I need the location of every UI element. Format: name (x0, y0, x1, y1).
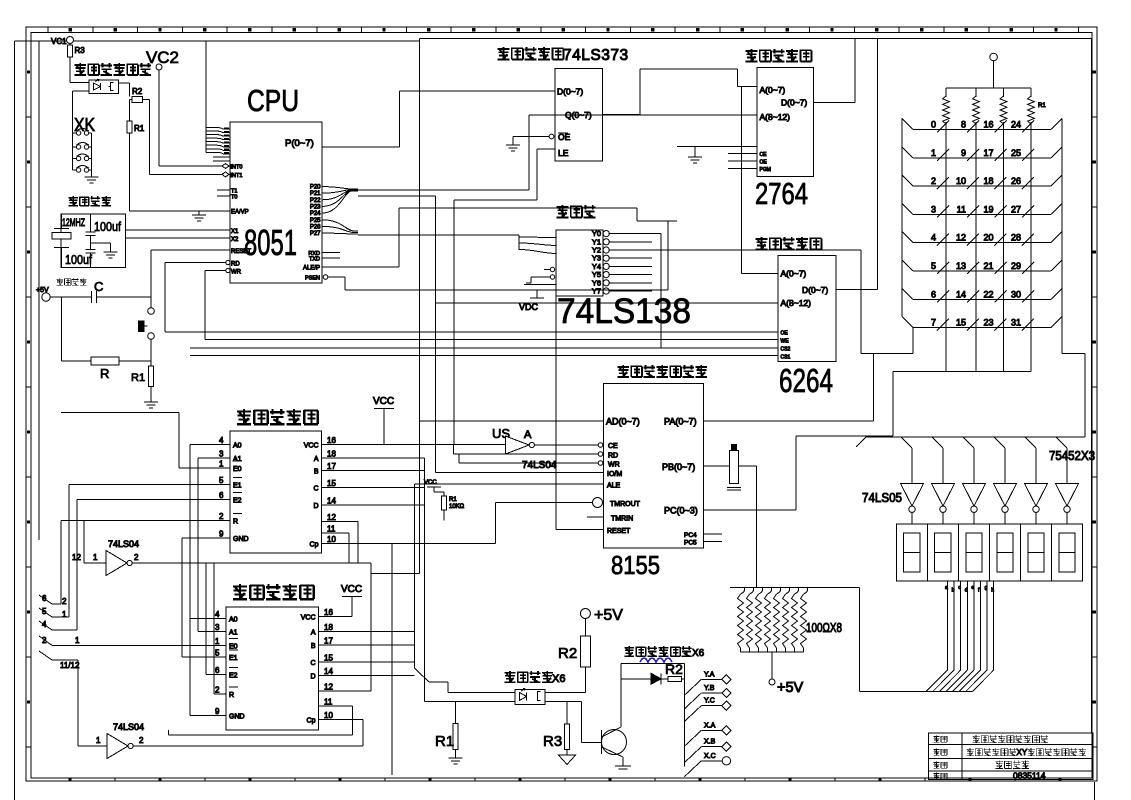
svg-text:28: 28 (1011, 233, 1021, 243)
resistor R1 (alarm) (127, 99, 145, 211)
label: program memory (746, 49, 812, 62)
8155 left pin labels (606, 417, 641, 536)
wire X2 (126, 237, 230, 239)
resistor R2 (out) (665, 661, 684, 681)
svg-text:P21: P21 (310, 191, 321, 197)
label: isolation circuit X6 (505, 671, 566, 685)
CPU X1 X2 labels (231, 229, 239, 243)
title row2: name of drawing (933, 748, 1086, 757)
wire RD to 6264 OE (165, 263, 778, 333)
svg-text:d: d (965, 588, 968, 594)
resistor R3 (543, 701, 576, 764)
CPU P2 pin stub curves (322, 187, 358, 235)
svg-text:0: 0 (931, 120, 936, 130)
PD1 right pin labels (304, 436, 337, 549)
svg-text:6: 6 (215, 666, 220, 675)
svg-text:2: 2 (139, 736, 144, 745)
svg-text:A(0~7): A(0~7) (781, 269, 807, 279)
svg-text:6: 6 (42, 594, 47, 603)
terminal +5V (amp) (580, 607, 623, 624)
blue marker squiggle (640, 658, 672, 662)
wire PSEN net (345, 221, 668, 290)
CPU ALE pin (303, 266, 399, 272)
wire Q out to 2764 (603, 69, 758, 115)
svg-text:R2: R2 (558, 645, 577, 662)
svg-text:A1: A1 (229, 629, 238, 636)
svg-text:CPU: CPU (247, 83, 299, 118)
svg-text:A: A (314, 456, 319, 463)
pulse distributor PD2 box (226, 607, 319, 730)
svg-text:74LS373: 74LS373 (563, 47, 629, 64)
svg-text:XY: XY (1017, 748, 1028, 757)
svg-text:VDC: VDC (519, 302, 539, 312)
svg-text:2: 2 (215, 686, 220, 695)
svg-text:b: b (952, 588, 955, 594)
svg-text:PC4: PC4 (684, 532, 697, 539)
PD2 right pin labels (301, 608, 334, 725)
svg-text:31: 31 (1011, 318, 1021, 328)
inverter input rail (856, 437, 1085, 447)
svg-text:AD(0~7): AD(0~7) (606, 417, 640, 427)
ground (reset R1) (144, 402, 158, 408)
wire 8155 PC (703, 509, 796, 511)
svg-text:11: 11 (324, 698, 333, 707)
svg-text:X.C: X.C (704, 753, 716, 760)
svg-text:Y.B: Y.B (704, 685, 715, 692)
svg-text:R3: R3 (75, 46, 86, 55)
2764 pin labels (760, 85, 808, 173)
CPU P2 pin labels (310, 185, 321, 238)
svg-text:4: 4 (215, 610, 220, 619)
svg-text:1: 1 (93, 553, 98, 562)
PD1 input wires (61, 413, 230, 539)
svg-text:VCC: VCC (341, 584, 362, 595)
label: decoder (557, 205, 596, 218)
CPU label (247, 83, 299, 118)
svg-text:B: B (311, 643, 316, 650)
CPU PSEN pin (305, 275, 345, 282)
wire vertical x392 (391, 544, 393, 776)
svg-text:R: R (100, 366, 109, 381)
svg-text:A1: A1 (233, 456, 242, 463)
svg-text:A(0~7): A(0~7) (760, 85, 786, 95)
svg-text:11: 11 (957, 204, 966, 214)
svg-text:17: 17 (324, 636, 333, 645)
resistor R2 (amp) (558, 619, 590, 693)
svg-text:75452X3: 75452X3 (1049, 448, 1095, 463)
svg-text:29: 29 (1011, 261, 1021, 271)
resistor R1 (amp) (435, 701, 463, 764)
CPU pin stubs misc (213, 157, 230, 161)
pulse distributor PD1 box (230, 431, 322, 553)
svg-text:A0: A0 (233, 442, 242, 449)
label 75452X3 (1049, 448, 1095, 463)
svg-text:14: 14 (956, 289, 966, 299)
keyboard row bus to PA (874, 328, 914, 421)
svg-text:R3: R3 (543, 733, 562, 750)
svg-text:1: 1 (75, 636, 80, 645)
inverter 74LS04 #1 (72, 539, 139, 576)
resistor R (62, 357, 152, 381)
svg-text:2: 2 (42, 636, 47, 645)
svg-text:OE: OE (781, 331, 789, 337)
title block (929, 733, 1094, 780)
svg-text:14: 14 (324, 667, 333, 676)
wire 8155 WR (459, 454, 603, 465)
CPU INT pins (222, 164, 242, 180)
svg-text:100ΩX8: 100ΩX8 (806, 620, 842, 635)
svg-text:T0: T0 (231, 195, 237, 201)
svg-text:18: 18 (983, 176, 993, 186)
label 100ohm X8 (806, 620, 842, 635)
svg-text:WR: WR (231, 270, 242, 276)
P2 addr bus to 2764 (358, 115, 757, 190)
wire Y0 to 6264 CS (660, 234, 662, 348)
svg-text:D: D (310, 673, 315, 680)
inverter1 output wire (132, 563, 371, 691)
resistor R2 (alarm) (119, 83, 150, 102)
svg-text:A: A (311, 629, 316, 636)
svg-text:PSEN: PSEN (305, 276, 320, 282)
svg-text:OE: OE (760, 160, 768, 166)
svg-text:4: 4 (931, 233, 936, 243)
8155 TMROUT bubble + wire (496, 498, 603, 544)
inverter1 input wire (84, 520, 106, 563)
PD2 input wires (52, 444, 226, 715)
svg-text:E0: E0 (229, 643, 238, 650)
svg-text:15: 15 (327, 479, 336, 488)
latch 74LS373 box (555, 69, 603, 161)
label 74LS05 (862, 490, 902, 505)
svg-text:P27: P27 (310, 231, 321, 237)
RAM 6264 box (778, 255, 836, 361)
inverter2 output wire (133, 745, 363, 747)
display segment wires a-h (926, 581, 994, 692)
svg-text:CE: CE (760, 152, 768, 158)
transistor Q1 (602, 664, 632, 770)
svg-text:Y.A: Y.A (704, 671, 715, 678)
svg-text:16: 16 (983, 120, 993, 130)
svg-text:18: 18 (327, 450, 336, 459)
svg-text:R2: R2 (132, 87, 143, 96)
svg-text:Cp: Cp (310, 542, 319, 549)
svg-text:D(0~7): D(0~7) (802, 285, 828, 295)
wire 8155 RD (454, 445, 603, 457)
optocoupler (isolation) (515, 689, 545, 705)
wire opto lower-left to R1 (425, 458, 516, 701)
svg-text:e: e (971, 585, 974, 591)
svg-text:15: 15 (956, 318, 966, 328)
capacitor C (50, 279, 151, 303)
svg-text:15: 15 (324, 654, 333, 663)
label: power amplifier circuit X6 (624, 646, 704, 659)
svg-text:VCC: VCC (373, 396, 394, 407)
svg-text:E2: E2 (233, 498, 242, 505)
bus entry stubs left (39, 484, 80, 670)
svg-text:21: 21 (983, 261, 993, 271)
VCC symbol PD1 (373, 396, 394, 445)
svg-text:X.B: X.B (704, 739, 716, 746)
keyboard terminal (990, 53, 998, 88)
74LS138 enable pins (524, 267, 556, 284)
svg-text:3: 3 (215, 623, 220, 632)
keyboard right link to inverter rail (1062, 317, 1085, 437)
inverter2 input wire (78, 660, 107, 746)
svg-text:+5V: +5V (777, 680, 804, 696)
keyboard column wires (946, 130, 1031, 372)
svg-text:20: 20 (983, 233, 993, 243)
svg-text:CS1: CS1 (781, 355, 791, 361)
ground (EA wire) (192, 211, 206, 221)
title row4: student id (933, 771, 1045, 781)
svg-text:+5V: +5V (594, 607, 623, 624)
wire opto to transistor base (545, 701, 602, 742)
svg-text:1: 1 (215, 637, 220, 646)
svg-text:12: 12 (324, 682, 333, 691)
wire ALE net (399, 208, 677, 267)
svg-text:P20: P20 (310, 185, 321, 191)
svg-text:1: 1 (931, 148, 936, 158)
keyboard pullup rail (946, 87, 1031, 89)
svg-text:B: B (314, 469, 319, 476)
svg-text:1: 1 (219, 460, 224, 469)
label: reset circuit (56, 278, 86, 286)
svg-text:VCC: VCC (304, 442, 319, 449)
diode D1 (621, 673, 668, 684)
svg-text:TMROUT: TMROUT (610, 501, 641, 508)
pull resistor on PB (727, 445, 741, 491)
capacitor 100uf upper (86, 214, 122, 250)
interface 8155 box (604, 383, 704, 548)
label: pulse distributor 1 (237, 409, 318, 425)
PD1 left pin labels (219, 436, 249, 543)
wire 8155 AD bus (420, 420, 604, 422)
svg-text:9: 9 (215, 707, 220, 716)
svg-text:27: 27 (1011, 204, 1021, 214)
svg-text:R1: R1 (1038, 103, 1046, 109)
svg-text:INT1: INT1 (231, 173, 243, 179)
wires into optocoupler (414, 484, 515, 692)
svg-text:Y7: Y7 (592, 287, 601, 296)
svg-text:13: 13 (956, 261, 966, 271)
svg-text:2: 2 (62, 597, 67, 606)
inverter 75452 inputs (901, 437, 1067, 484)
svg-text:6: 6 (931, 289, 936, 299)
CPU WR pin (205, 268, 242, 275)
svg-text:10KΩ: 10KΩ (449, 504, 465, 510)
title row3: designer (933, 761, 1029, 769)
svg-text:g: g (985, 585, 988, 591)
svg-text:4: 4 (219, 436, 224, 445)
svg-text:5: 5 (931, 261, 936, 271)
long vertical bus wire (371, 38, 420, 573)
keyboard row rails (902, 119, 1062, 328)
svg-text:P(0~7): P(0~7) (285, 138, 314, 149)
svg-text:WR: WR (608, 462, 620, 469)
svg-text:19: 19 (983, 204, 993, 214)
svg-text:GND: GND (229, 713, 245, 720)
resistor R1 (reset) (131, 366, 154, 402)
svg-text:A(8~12): A(8~12) (781, 298, 812, 308)
CPU RD pin (165, 260, 240, 267)
6264 pin labels (781, 269, 829, 361)
svg-text:PA(0~7): PA(0~7) (664, 417, 697, 427)
svg-text:R2: R2 (665, 661, 683, 677)
svg-text:3: 3 (219, 450, 224, 459)
wire R2 to CPU INT1 (150, 99, 230, 174)
svg-text:TMRIN: TMRIN (611, 516, 633, 523)
clock circuit box (61, 214, 126, 268)
svg-text:ALE: ALE (607, 483, 621, 490)
svg-text:WE: WE (781, 339, 790, 345)
stray bottom-right boundary line (1094, 782, 1096, 800)
ground (clock) (91, 243, 118, 258)
svg-text:D(0~7): D(0~7) (781, 98, 807, 108)
svg-text:R1: R1 (449, 497, 457, 503)
6264 D bus to top (836, 38, 878, 289)
svg-text:R1: R1 (134, 124, 145, 133)
2764 D bus to top (814, 38, 856, 102)
wire VC2 to CPU INT0 (159, 70, 230, 166)
seven-segment displays (896, 524, 1082, 581)
label: pulse distributor 2 (233, 584, 314, 600)
svg-text:8155: 8155 (611, 550, 660, 580)
wire Y2 net (861, 250, 874, 353)
PD2 pin12 pin11 wires (169, 691, 372, 735)
svg-text:X6: X6 (692, 648, 705, 659)
svg-text:1: 1 (62, 610, 67, 619)
wire addr bus to 6264 (742, 87, 778, 274)
op-chip CPU 8051 box (230, 122, 322, 283)
amp top wire (621, 664, 684, 767)
resistor R3 (68, 44, 86, 83)
8155 TMRIN stub (587, 516, 604, 518)
svg-text:R: R (229, 692, 234, 699)
svg-text:D(0~7): D(0~7) (557, 87, 583, 97)
wire LE to ALE (454, 149, 555, 445)
svg-text:VCC: VCC (424, 480, 437, 486)
wire X1 (126, 229, 230, 231)
label: programmable interface chip (618, 365, 707, 378)
stray left boundary line (15, 41, 39, 800)
8155 RESET wire (556, 296, 604, 530)
svg-text:RD: RD (608, 453, 618, 460)
svg-text:VC1: VC1 (51, 37, 67, 46)
svg-text:1: 1 (96, 736, 101, 745)
svg-text:16: 16 (327, 436, 336, 445)
optocoupler U-alarm (89, 79, 119, 93)
svg-text:P25: P25 (310, 218, 321, 224)
label: clock circuit (69, 196, 111, 207)
2764 label (755, 176, 808, 211)
svg-text:CE: CE (608, 443, 618, 450)
svg-text:8: 8 (961, 120, 966, 130)
decoder 74LS138 box (556, 230, 603, 296)
wire P0 bus to 74LS373 (322, 91, 555, 147)
svg-text:11: 11 (327, 525, 336, 534)
svg-text:23: 23 (983, 318, 993, 328)
svg-text:RESET: RESET (231, 249, 251, 255)
svg-text:8051: 8051 (244, 222, 297, 263)
svg-text:2: 2 (219, 512, 224, 521)
wire opto right to R2 (545, 691, 585, 693)
svg-text:6: 6 (219, 491, 224, 500)
svg-text:30: 30 (1011, 289, 1021, 299)
svg-text:TXD: TXD (309, 257, 320, 263)
svg-text:5: 5 (42, 607, 47, 616)
svg-text:P26: P26 (310, 224, 321, 230)
svg-text:PC5: PC5 (684, 540, 697, 547)
CPU P0 port label (285, 138, 314, 149)
svg-text:5: 5 (215, 649, 220, 658)
keyboard key numbers (931, 120, 1034, 331)
svg-text:74LS04: 74LS04 (108, 539, 139, 549)
wire 8155 ALE (414, 483, 603, 485)
svg-text:100uf: 100uf (65, 252, 92, 267)
wire 6264 CS1 (190, 354, 778, 356)
svg-text:5: 5 (219, 476, 224, 485)
P2 addr bus to 6264 (358, 196, 778, 473)
svg-text:X.A: X.A (704, 722, 716, 729)
svg-text:E1: E1 (233, 482, 242, 489)
svg-text:26: 26 (1011, 176, 1021, 186)
svg-text:Cp: Cp (307, 718, 316, 725)
output terminals YA-XC (684, 671, 731, 776)
74LS373 OE bubble + ground (506, 134, 554, 151)
svg-text:C: C (313, 485, 318, 492)
svg-text:4: 4 (42, 620, 47, 629)
svg-text:IO/M: IO/M (607, 471, 622, 478)
svg-text:R1: R1 (435, 733, 454, 750)
label: address latch 74LS373 (498, 47, 629, 64)
svg-text:2: 2 (931, 176, 936, 186)
CPU TXD RXD pins (308, 251, 340, 263)
wire 8155 PB to array (703, 466, 756, 588)
svg-text:D: D (313, 503, 318, 510)
svg-text:X2: X2 (231, 237, 239, 243)
svg-text:R1: R1 (131, 372, 145, 384)
svg-text:LE: LE (558, 148, 569, 158)
svg-text:PGM: PGM (760, 167, 771, 173)
wire US out to CE (534, 443, 602, 448)
svg-text:10: 10 (327, 535, 336, 544)
2764 CE wire + ground (677, 147, 757, 164)
74LS373 pin labels (557, 87, 592, 159)
wire WR to 6264 WE (205, 271, 778, 340)
svg-text:Y.C: Y.C (704, 698, 715, 705)
svg-text:RESET: RESET (607, 528, 631, 535)
label XK (74, 115, 95, 135)
svg-text:74LS04: 74LS04 (113, 722, 144, 732)
wire PD1 VCC / US input (322, 444, 506, 446)
wire R1 to CPU EA (129, 210, 230, 212)
svg-text:18: 18 (324, 623, 333, 632)
svg-text:6264: 6264 (779, 362, 833, 399)
svg-text:VCC: VCC (301, 614, 316, 621)
wire opto in (70, 82, 89, 84)
svg-text:74LS04: 74LS04 (522, 460, 557, 471)
svg-text:A(8~12): A(8~12) (760, 112, 791, 122)
CPU EA pin label (231, 210, 249, 216)
PD1 pin12 pin11 wires (322, 522, 359, 564)
svg-text:10: 10 (324, 711, 333, 720)
wire 6264 CS2 (190, 347, 778, 349)
svg-text:9: 9 (219, 530, 224, 539)
wire P2 to decoder inputs (358, 235, 556, 254)
svg-text:17: 17 (327, 462, 336, 471)
ROM 2764 box (757, 68, 814, 177)
top data bus line (420, 38, 1092, 733)
